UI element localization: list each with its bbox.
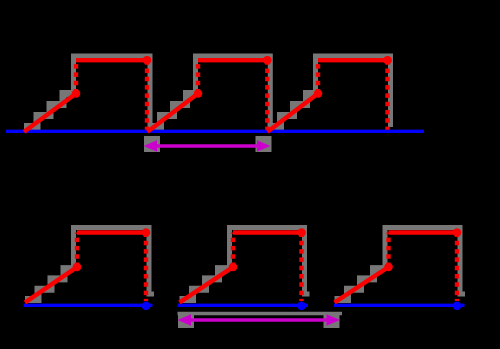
wire: bottom staircase+outline pulse 3 (gray) <box>335 269 386 300</box>
wire: top staircase+outline pulse 2 (gray) <box>148 94 196 127</box>
wire: bottom staircase+outline pulse 1 (gray) <box>25 269 74 300</box>
node: top arrow right end block (gray) <box>256 136 272 152</box>
wire: bottom fall 1 (red dashed) <box>144 233 148 302</box>
node: top period left arrowhead (magenta) <box>144 140 157 152</box>
wire: bottom ramp 3 (red) <box>335 267 389 303</box>
wire: bottom period line (magenta) <box>184 318 334 322</box>
node: bottom ramp vertex 3 (red marker) <box>384 263 393 272</box>
node: bottom corner 3 (red marker) <box>453 228 462 237</box>
wire: top flat 2 (red) <box>198 58 267 62</box>
wire: top rise 3 (red dashed) <box>316 60 320 93</box>
wire: bottom fall 2 (red dashed) <box>299 233 303 302</box>
wire: top ramp 3 (red) <box>268 94 319 132</box>
wire: top ramp 2 (red) <box>148 94 199 132</box>
node: bottom corner 1 (red marker) <box>142 228 151 237</box>
node: bottom fall 2 end (blue marker) <box>297 302 306 311</box>
node: top period right arrowhead (magenta) <box>257 140 270 152</box>
wire: bottom baseline 3 (blue) <box>334 304 465 307</box>
node: top corner 2 (red marker) <box>263 56 272 65</box>
wire: top ramp 1 (red) <box>24 94 76 132</box>
wire: top flat 1 (red) <box>76 58 147 62</box>
wire: bottom rise 3 (red dashed) <box>386 233 390 268</box>
node: top corner 3 (red marker) <box>383 56 392 65</box>
wire: bottom rise 2 (red dashed) <box>231 233 235 268</box>
wire: top flat 3 (red) <box>318 58 388 62</box>
node: bottom ramp vertex 1 (red marker) <box>73 263 82 272</box>
node: bottom arrow right end block (gray) <box>324 312 340 328</box>
node: bottom ramp vertex 2 (red marker) <box>229 263 238 272</box>
wire: bottom baseline 2 (blue) <box>178 304 309 307</box>
wire: bottom flat 2 (red) <box>233 230 302 234</box>
wire: top rise 2 (red dashed) <box>196 60 200 93</box>
wire: top fall 1 (red dashed) <box>145 60 149 130</box>
node: bottom fall 1 end (blue marker) <box>142 302 151 311</box>
node: top corner 1 (red marker) <box>143 56 152 65</box>
wire: top staircase+outline pulse 1 (gray) <box>24 94 74 127</box>
wire: bottom arrow gray line <box>178 312 343 315</box>
node: top ramp vertex 1 (red marker) <box>72 89 81 98</box>
node: top arrow left end block (gray) <box>144 136 160 152</box>
wire: bottom ramp 1 (red) <box>25 267 77 303</box>
node: bottom period left arrowhead (magenta) <box>178 314 192 326</box>
node: top ramp vertex 3 (red marker) <box>314 89 323 98</box>
node: bottom period right arrowhead (magenta) <box>327 314 341 326</box>
wire: top fall 2 (red dashed) <box>265 60 269 130</box>
node: bottom fall 3 end (blue marker) <box>453 302 462 311</box>
wire: bottom flat 1 (red) <box>77 230 146 234</box>
wire: top period line (magenta) <box>150 144 264 148</box>
wire: bottom flat 3 (red) <box>389 230 458 234</box>
node: bottom arrow left end block (gray) <box>178 312 194 328</box>
wire: bottom fall 3 (red dashed) <box>455 233 459 302</box>
node: bottom corner 2 (red marker) <box>297 228 306 237</box>
wire: top fall 3 (red dashed) <box>385 60 389 130</box>
wire: bottom staircase+outline pulse 2 (gray) <box>180 269 230 300</box>
wire: bottom rise 1 (red dashed) <box>75 233 79 268</box>
wire: bottom baseline 1 (blue) <box>24 304 153 307</box>
wire: top staircase+outline pulse 3 (gray) <box>268 94 316 127</box>
wire: top baseline (blue) <box>6 130 424 133</box>
wire: top rise 1 (red dashed) <box>74 60 78 93</box>
node: top ramp vertex 2 (red marker) <box>194 89 203 98</box>
wire: bottom ramp 2 (red) <box>180 267 234 303</box>
